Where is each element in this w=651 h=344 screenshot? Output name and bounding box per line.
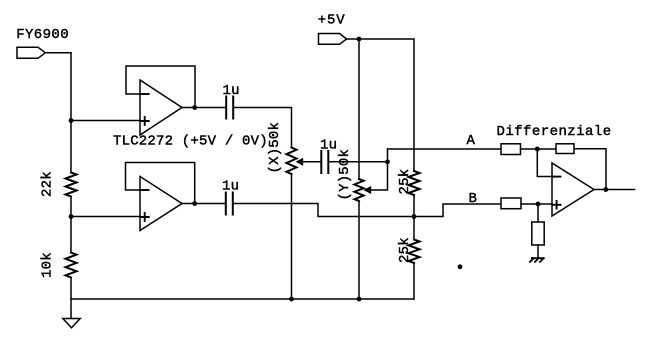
node junction opamp1 + input [69,118,74,123]
op-amp U1B triangle [140,177,182,231]
wire U1A feedback loop [126,66,195,108]
svg-text:TLC2272 (+5V / 0V): TLC2272 (+5V / 0V) [113,134,268,150]
node junction A / C2 / wiper [385,159,390,164]
svg-text:(Y)50k: (Y)50k [337,149,353,201]
wire U2 output [594,189,635,191]
svg-text:B: B [469,191,478,207]
node junction opamp2 + input [69,214,74,219]
op-amp U1A triangle [140,80,182,135]
svg-text:25k: 25k [397,169,413,195]
wire pot Y bottom to ground rail [358,201,360,299]
wire to opamp1 + input [71,120,140,122]
node junction non-inverting input [536,202,541,207]
svg-text:FY6900: FY6900 [16,27,69,43]
svg-text:Differenziale: Differenziale [497,124,612,140]
svg-text:22k: 22k [40,171,56,197]
resistor 25k upper [409,171,420,195]
wire + node to ground resistor [537,204,539,222]
node junction inverting input [535,147,540,152]
ground GND1 [63,319,80,328]
resistor 25k lower [409,240,420,264]
wire pot X wiper to C2 [302,161,321,163]
svg-text:+5V: +5V [318,13,346,29]
wire +5V node down to pot Y [358,39,360,179]
node junction B divider [412,214,417,219]
resistor feedback (box) [556,144,574,154]
op-amp U2 plus glyph [553,201,561,209]
op-amp U1B minus glyph [141,189,149,191]
wire 25k upper to node B [413,195,415,217]
svg-text:25k: 25k [397,237,413,263]
wire U1A output to C1 [182,107,226,109]
connector +5V tag [319,34,347,45]
wire 10k to ground [70,278,72,319]
op-amp U1B plus glyph [141,213,149,221]
wire ground resistor to ground [537,245,539,258]
svg-text:(X)50k: (X)50k [267,122,283,174]
wire 25k lower top [413,217,415,240]
wire to opamp2 + input [71,216,140,218]
potentiometer (Y)50k body [354,179,363,201]
capacitor C2 plates [321,151,328,173]
wire U1B output to C3 [182,203,226,205]
wire pot X bottom to ground rail [291,174,293,299]
wire +5V node to 25k branch [359,39,414,171]
potentiometer Y wiper arrow [365,187,370,193]
capacitor C1 plates [226,97,233,119]
svg-text:10k: 10k [40,252,56,278]
resistor to ground (box) [532,222,544,245]
node junction pot Y / rail [357,297,362,302]
wire RB to + input [521,203,552,205]
svg-text:A: A [467,133,476,149]
potentiometer X wiper arrow [297,159,302,165]
op-amp U1A minus glyph [141,93,149,95]
resistor 22k [66,173,77,197]
wire left vertical bus [70,53,72,173]
connector FY6900 input tag [17,47,45,58]
ground GND2 signal ground [530,258,544,262]
resistor RA input (box) [501,144,521,155]
node stray dot [458,264,463,269]
wire 25k lower to ground rail [413,263,415,299]
wire inverting node down to opamp - input [537,149,552,177]
node junction +5V [357,37,362,42]
node junction U2 output / feedback [603,187,608,192]
svg-text:1u: 1u [222,179,239,195]
wire pot Y wiper to node A [370,149,388,190]
op-amp U1A plus glyph [141,117,149,125]
resistor 10k [66,253,77,278]
svg-text:1u: 1u [223,83,240,99]
node junction U1A output [192,105,197,110]
node junction pot X / rail [289,297,294,302]
wire C1 to pot X [233,108,291,148]
wire feedback to output [574,149,606,190]
wire 22k to 10k [70,197,72,253]
wire FY6900 tag to left bus [45,52,71,54]
resistor RB input (box) [501,198,521,209]
potentiometer (X)50k body [287,148,297,175]
wire C3 toward node B [233,204,501,217]
wire RA to node [521,148,557,150]
capacitor C3 plates [226,193,233,215]
wire C2 to node A branch [328,161,387,163]
wire U1B feedback loop [126,163,195,204]
node junction U1B output [192,201,197,206]
wire +5V tag to node [347,38,359,40]
wire ground rail [71,298,414,300]
op-amp U2 triangle [552,163,594,216]
wire node A to differential stage [388,148,502,150]
op-amp U2 minus glyph [553,176,560,178]
